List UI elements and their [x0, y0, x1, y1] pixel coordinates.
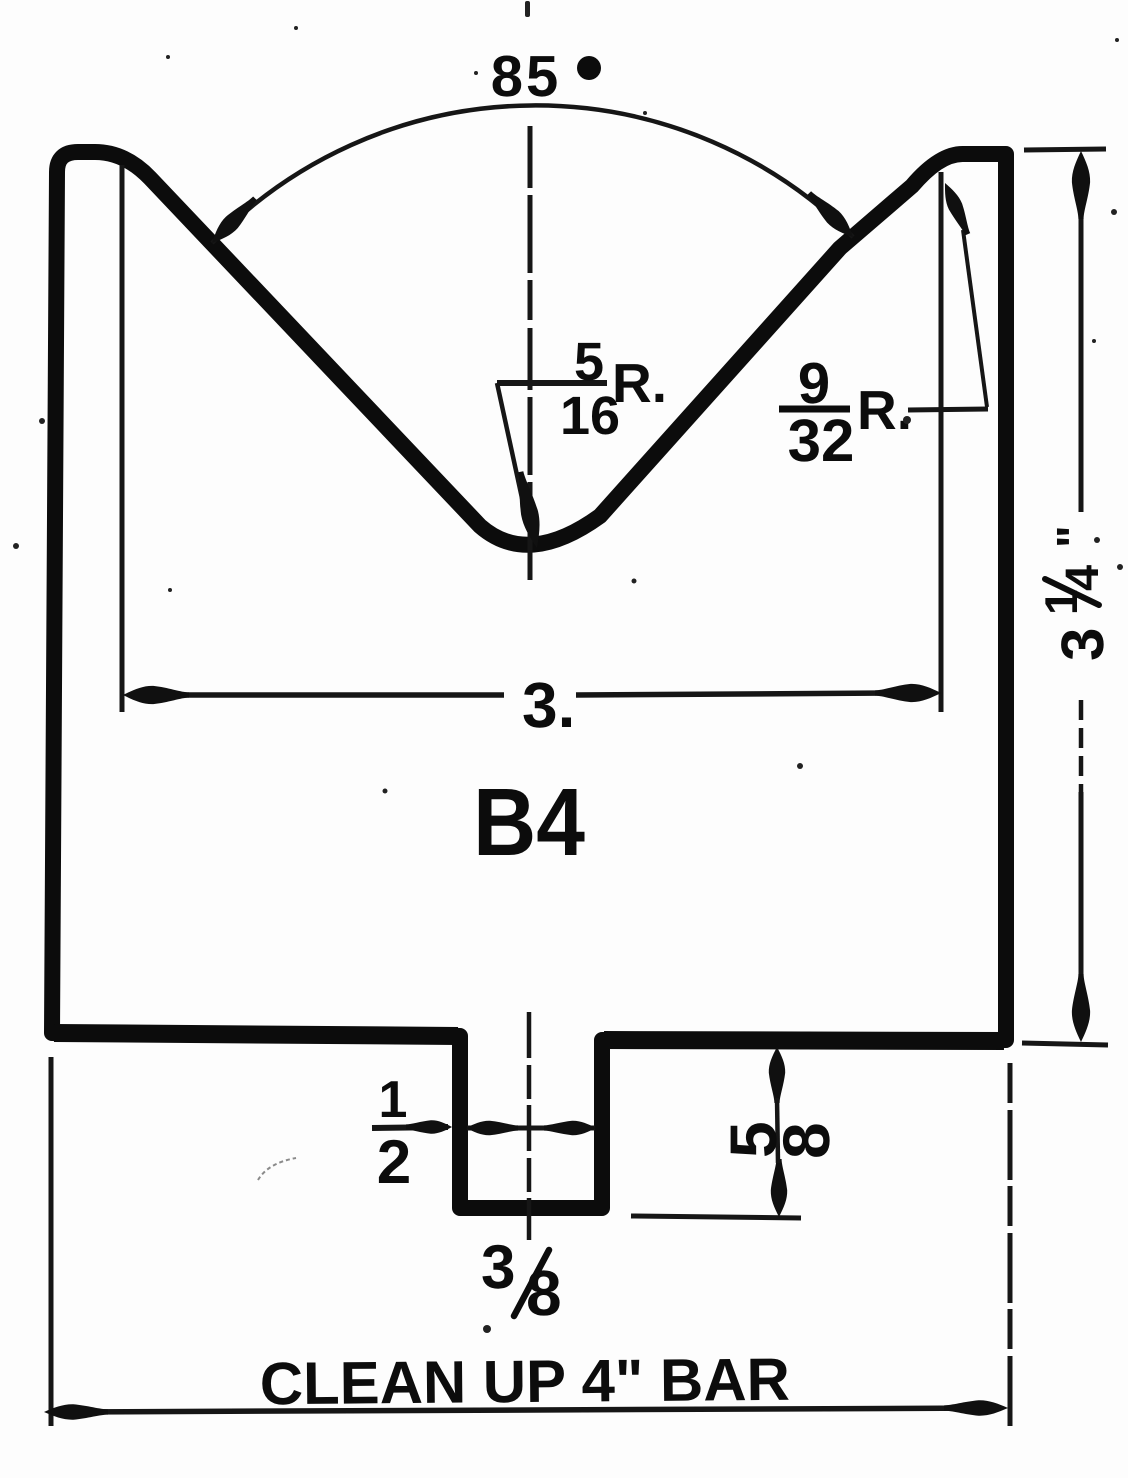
- label 5/8 (rotated): [716, 1121, 843, 1159]
- svg-text:": ": [1048, 525, 1101, 548]
- 9/32 R. label and leader to top-right corner radius: [908, 409, 988, 410]
- svg-text:32: 32: [788, 407, 855, 474]
- 1/2 inner left arrowhead: [466, 1121, 518, 1135]
- 3 1/4 inch dimension line upper: [1079, 215, 1084, 512]
- 3 1/4 bottom arrowhead: [1072, 974, 1090, 1042]
- 3 1/4 inch top extension tick: [1024, 149, 1106, 150]
- svg-text:2: 2: [377, 1128, 411, 1197]
- die block B4 outline with V-groove and bottom tang: [52, 152, 1006, 1208]
- vertical centerline (upper, through V): [528, 126, 533, 580]
- 1/2 leader from fraction bar to tang: [372, 1127, 448, 1128]
- clean-up bar right extension line: [1008, 1063, 1013, 1426]
- vertical centerline (lower, through tang): [527, 1012, 532, 1240]
- extension line right (from V top-right corner): [939, 172, 944, 712]
- clean-up right arrowhead: [944, 1400, 1008, 1415]
- svg-text:3.: 3.: [522, 669, 575, 741]
- svg-text:8: 8: [526, 1257, 562, 1329]
- 5/16 leader arrowhead: [518, 471, 539, 548]
- 3 1/4 inch dimension line lower: [1079, 700, 1084, 792]
- dimension line 3. right part: [576, 693, 900, 695]
- 3 1/4 inch bottom extension tick: [1022, 1043, 1108, 1045]
- 9/32 leader arrowhead: [945, 183, 970, 235]
- 1/2 inner right arrowhead: [544, 1121, 596, 1135]
- bottom edge (heavier scan ink): [54, 1033, 458, 1036]
- extension line left (from V top-left corner): [120, 165, 125, 712]
- arc right arrowhead: [807, 191, 853, 237]
- label 3 1/4 inch (rotated): [1035, 525, 1116, 661]
- 3. left arrowhead: [123, 686, 189, 704]
- 85 degree arc dimension across V opening: [212, 105, 853, 243]
- dimension line 3. left part: [150, 692, 504, 698]
- clean-up left arrowhead: [44, 1404, 108, 1419]
- svg-text:1: 1: [379, 1071, 408, 1129]
- svg-text:3: 3: [481, 1233, 515, 1302]
- arc left arrowhead: [212, 197, 257, 244]
- faint pencil squiggle: [258, 1158, 296, 1180]
- svg-text:3: 3: [1049, 628, 1116, 661]
- svg-text:85: 85: [491, 44, 562, 109]
- 3. right arrowhead: [875, 684, 941, 702]
- svg-text:R.: R.: [612, 352, 667, 414]
- clean-up bar left extension line: [49, 1057, 54, 1426]
- 5/8 bottom extension line: [631, 1216, 801, 1218]
- svg-text:5: 5: [574, 332, 604, 392]
- 3 1/4 top arrowhead: [1072, 151, 1090, 219]
- svg-text:CLEAN UP 4" BAR: CLEAN UP 4" BAR: [260, 1346, 791, 1418]
- 5/16 R. label and leader to V bottom radius: [497, 380, 607, 386]
- 1/2 outer arrowhead: [406, 1120, 452, 1133]
- 5/8 top arrowhead: [769, 1047, 785, 1103]
- 5/8 bottom arrowhead: [771, 1159, 787, 1217]
- clean-up bar dimension line: [60, 1408, 995, 1412]
- 1/2 dimension line inside tang: [467, 1126, 595, 1131]
- svg-text:R.: R.: [857, 379, 912, 441]
- svg-text:8: 8: [769, 1122, 843, 1159]
- svg-text:B4: B4: [473, 769, 585, 876]
- svg-text:4: 4: [1055, 565, 1108, 591]
